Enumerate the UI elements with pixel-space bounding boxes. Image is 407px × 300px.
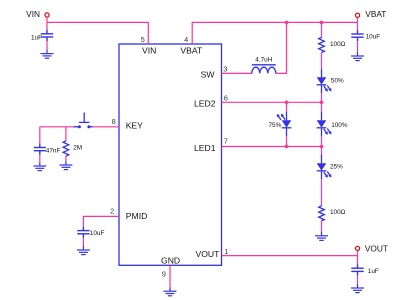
svg-text:1uF: 1uF — [368, 268, 379, 275]
wire VOUT cap to ground — [357, 275, 359, 284]
ground under 2M — [59, 161, 72, 169]
wire VOUT terminal drop — [357, 251, 359, 256]
capacitor 47nF — [34, 144, 46, 155]
wire wire7 to 25% LED — [321, 147, 323, 156]
wire inductor to VBAT rail — [276, 22, 287, 73]
wire 2M to ground — [65, 156, 67, 162]
op-amp U1 main IC body — [119, 44, 222, 265]
svg-text:1uF: 1uF — [31, 34, 42, 41]
node VBAT terminal circle — [355, 13, 359, 17]
wire KEY to 47nF cap — [39, 127, 41, 144]
svg-text:10uF: 10uF — [366, 34, 381, 41]
junction VBAT rail / LED chain — [320, 21, 324, 25]
capacitor 10uF at PMID — [77, 227, 89, 238]
svg-text:LED1: LED1 — [194, 143, 216, 153]
wire VBAT to 10uF cap — [357, 22, 359, 30]
wire KEY pin 8 right segment — [93, 126, 120, 128]
wire VBAT cap to ground — [357, 41, 359, 52]
ground under VBAT cap — [351, 52, 364, 60]
svg-text:1: 1 — [224, 247, 228, 256]
wire resistor to 50% LED — [321, 52, 323, 69]
wire SW pin to inductor — [222, 72, 252, 74]
wire 75% LED to wire7 — [286, 136, 288, 146]
junction VBAT rail / inductor branch — [285, 21, 289, 25]
svg-text:GND: GND — [161, 255, 180, 265]
wire VBAT rail from pin 4 — [192, 22, 357, 44]
svg-text:100Ω: 100Ω — [330, 209, 346, 216]
LED D3 25% — [317, 155, 332, 180]
capacitor 1uF at VOUT — [351, 264, 363, 275]
wire 100% LED to wire7 — [321, 136, 323, 146]
capacitor 1uF at VIN — [41, 30, 53, 41]
ground at pin 9 — [164, 287, 177, 295]
wire 47nF to ground — [39, 155, 41, 163]
node VIN terminal circle — [45, 13, 49, 17]
svg-text:50%: 50% — [331, 78, 344, 85]
resistor 100ohm (top) — [319, 37, 325, 52]
svg-text:6: 6 — [224, 93, 228, 102]
capacitor 10uF at VBAT — [351, 30, 363, 41]
ground under PMID cap — [77, 246, 90, 254]
wire wire6 to 75% LED — [286, 102, 288, 112]
wire VOUT pin 1 to terminal — [222, 255, 358, 257]
resistor 2M — [63, 141, 69, 156]
svg-text:SW: SW — [201, 70, 216, 80]
ground under VIN cap — [41, 50, 54, 58]
wire VOUT to 1uF cap — [357, 256, 359, 265]
wire LED2 pin 6 — [222, 101, 322, 103]
wire VIN horizontal to pin 5 — [47, 22, 148, 44]
resistor 100ohm (bottom) — [319, 206, 325, 221]
inductor L1 4.7uH — [252, 65, 276, 74]
svg-text:100Ω: 100Ω — [330, 41, 346, 48]
svg-text:4: 4 — [184, 35, 188, 44]
push button S1 — [74, 113, 93, 127]
svg-text:VOUT: VOUT — [196, 249, 221, 259]
svg-text:VBAT: VBAT — [180, 45, 203, 55]
LED D1 50% — [317, 69, 332, 94]
wire 100ohm bottom to ground — [321, 221, 323, 233]
push button contact left — [78, 125, 81, 128]
svg-text:LED2: LED2 — [194, 99, 216, 109]
wire C1 bottom to ground — [46, 41, 48, 50]
wire wire6 to 100% LED — [321, 102, 323, 112]
svg-text:KEY: KEY — [126, 121, 143, 131]
svg-text:100%: 100% — [331, 122, 348, 129]
svg-text:8: 8 — [112, 117, 116, 126]
wire KEY to 2M resistor — [65, 127, 67, 141]
svg-text:VOUT: VOUT — [365, 244, 388, 254]
wire 25% LED to 100ohm bottom — [321, 179, 323, 206]
svg-text:VIN: VIN — [26, 9, 40, 19]
wire 50% LED to wire6 — [321, 93, 323, 102]
ground under VOUT cap — [351, 284, 364, 292]
junction wire7 / 75% LED branch — [285, 145, 289, 149]
wire PMID pin 2 — [83, 216, 119, 227]
LED D2 100% — [317, 112, 332, 137]
svg-text:2M: 2M — [73, 144, 82, 151]
svg-text:PMID: PMID — [126, 211, 147, 221]
junction wire6 / LED chain — [320, 101, 324, 105]
wire VIN terminal to C1 top — [46, 17, 48, 30]
node VOUT terminal circle — [355, 246, 359, 250]
svg-text:25%: 25% — [330, 164, 343, 171]
svg-text:VBAT: VBAT — [365, 9, 386, 19]
junction wire6 / 75% LED branch — [285, 101, 289, 105]
svg-text:75%: 75% — [269, 122, 282, 129]
svg-text:10uF: 10uF — [90, 230, 105, 237]
LED D4 75% (mirrored arrows) — [277, 112, 292, 137]
ground under LED chain — [315, 232, 328, 240]
wire LED1 pin 7 — [222, 146, 322, 148]
svg-text:2: 2 — [110, 207, 114, 216]
svg-text:9: 9 — [162, 269, 166, 278]
wire KEY pin 8 left segment — [40, 126, 74, 128]
wire VBAT terminal drop — [357, 17, 359, 22]
wire PMID cap to ground — [82, 238, 84, 247]
ground under 47nF — [33, 162, 46, 170]
svg-text:47nF: 47nF — [46, 147, 61, 154]
wire VBAT rail to 100ohm resistor — [321, 22, 323, 37]
svg-text:3: 3 — [223, 65, 227, 74]
svg-text:7: 7 — [224, 137, 228, 146]
push button contact right — [87, 125, 90, 128]
svg-text:4.7uH: 4.7uH — [255, 56, 272, 63]
junction wire7 / LED chain — [320, 145, 324, 149]
wire GND pin 9 — [169, 266, 171, 288]
svg-text:5: 5 — [141, 35, 145, 44]
svg-text:VIN: VIN — [142, 45, 156, 55]
